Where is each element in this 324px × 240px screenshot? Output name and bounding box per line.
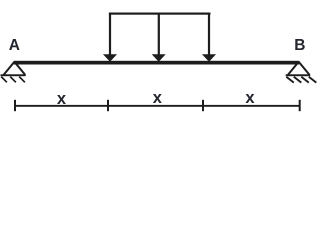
dimension tick 2 [107, 100, 109, 111]
load arrow 1 shaft [109, 13, 111, 55]
support A triangle [4, 62, 25, 75]
dimension label x segment 2 [153, 89, 163, 107]
dimension tick 4 [299, 100, 301, 111]
distributed load top bar [109, 13, 211, 15]
svg-text:x: x [245, 89, 255, 107]
svg-text:x: x [153, 89, 163, 107]
support A base line [1, 74, 26, 76]
dimension tick 1 [14, 100, 16, 111]
dimension tick 3 [202, 100, 204, 111]
dimension label x segment 1 [57, 90, 67, 108]
load arrow 1 head [103, 54, 117, 62]
node label A [9, 37, 20, 54]
support A hatching [1, 77, 25, 83]
svg-text:B: B [294, 37, 305, 54]
dimension line [15, 105, 300, 107]
support B base line [286, 74, 311, 76]
beam A-B [14, 61, 299, 65]
svg-text:A: A [9, 37, 20, 54]
support B triangle [288, 62, 309, 75]
support B hatching [286, 77, 316, 83]
load arrow 3 head [202, 54, 216, 62]
load arrow 3 shaft [208, 13, 210, 55]
node label B [294, 37, 305, 54]
load arrow 2 shaft [158, 13, 160, 55]
dimension label x segment 3 [245, 89, 255, 107]
load arrow 2 head [152, 54, 166, 62]
svg-text:x: x [57, 90, 67, 108]
